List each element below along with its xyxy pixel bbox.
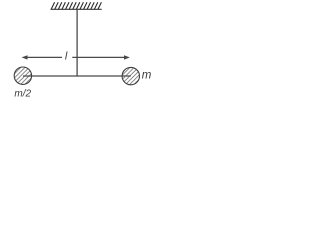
left arrowhead <box>22 55 28 59</box>
mass m/2 circle <box>14 67 31 84</box>
mass m circle <box>122 67 139 84</box>
right arrowhead <box>124 55 130 59</box>
connecting rod <box>23 75 131 77</box>
svg-text:m/2: m/2 <box>14 89 31 100</box>
svg-text:l: l <box>65 51 68 63</box>
dimension arrow left segment <box>27 56 62 58</box>
dimension arrow right segment <box>72 56 124 58</box>
support rod <box>76 9 78 76</box>
svg-text:m: m <box>142 70 152 82</box>
ceiling line <box>51 8 102 10</box>
ceiling hatching <box>51 2 101 9</box>
